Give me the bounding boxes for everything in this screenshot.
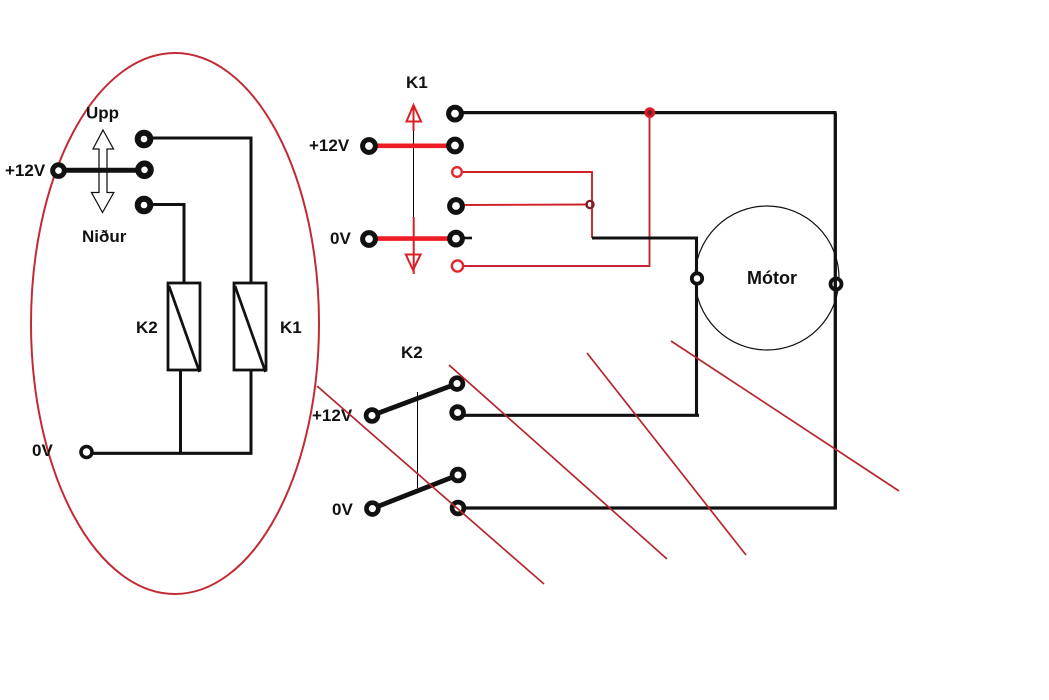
black wire motor left down to K2 throw: [463, 414, 699, 417]
terminal 0V right: [450, 232, 463, 245]
relay coil K2: [168, 283, 200, 372]
terminal +12V left: [363, 140, 376, 153]
red strike line B: [449, 365, 667, 559]
terminal K2 +12V left: [366, 410, 378, 422]
svg-text:Mótor: Mótor: [747, 268, 797, 288]
switch K2 lower arm: [372, 475, 458, 509]
switch K1 link line: [413, 131, 415, 217]
terminal Niður: [138, 199, 151, 212]
junction node on top rail (red): [646, 109, 654, 117]
switch K1 down arrowhead (red): [406, 255, 421, 271]
terminal Upp: [138, 133, 151, 146]
terminal K2 lower NC: [452, 502, 464, 514]
terminal K2 upper throw: [451, 378, 463, 390]
terminal K2 upper NC: [452, 407, 464, 419]
junction node (dark red circle): [586, 201, 593, 208]
red strike line D: [671, 341, 899, 491]
svg-text:K1: K1: [406, 73, 428, 92]
terminal +12V right: [449, 139, 462, 152]
terminal 0V feed (open circle): [81, 447, 92, 458]
motor terminal left: [692, 273, 702, 283]
svg-text:+12V: +12V: [312, 406, 353, 425]
terminal mid (black ring): [450, 200, 463, 213]
svg-text:K2: K2: [401, 343, 423, 362]
up/down white outline arrow: [92, 130, 114, 213]
wire 0V rail: [92, 452, 253, 455]
terminal top contact: [449, 107, 462, 120]
red wire black terminal to junction: [462, 204, 588, 207]
svg-text:Upp: Upp: [86, 104, 119, 123]
relay box ellipse (red): [31, 53, 319, 594]
wire upper contact to K1 coil: [150, 138, 251, 284]
closed contact +12V (red bar): [373, 144, 452, 149]
red strike line C: [587, 353, 746, 555]
svg-text:0V: 0V: [330, 229, 351, 248]
svg-text:K1: K1: [280, 318, 302, 337]
black stub right of 0V terminal: [460, 237, 472, 240]
terminal K2 lower throw: [452, 469, 464, 481]
terminal 0V left: [363, 233, 376, 246]
svg-text:+12V: +12V: [309, 136, 350, 155]
svg-text:Niður: Niður: [82, 227, 127, 246]
switch K1 up arrowhead (red): [407, 105, 422, 122]
relay coil K1: [234, 283, 266, 372]
wire K1 coil to 0V rail: [250, 370, 253, 454]
switch K2 upper arm: [372, 384, 457, 416]
red wire lower NC to top rail: [463, 114, 650, 266]
svg-text:0V: 0V: [332, 500, 353, 519]
wire +12V feed: [60, 168, 141, 173]
svg-text:K2: K2: [136, 318, 158, 337]
black wire junction to motor left: [592, 238, 697, 415]
closed contact 0V (red bar): [373, 236, 450, 241]
wire lower contact to K2 coil: [150, 205, 184, 285]
red strike line A: [317, 386, 544, 584]
motor circle: [695, 206, 839, 350]
svg-text:0V: 0V: [32, 441, 53, 460]
terminal +12V feed (small ring): [53, 165, 65, 177]
terminal lower NC (red open circle): [452, 260, 463, 271]
black wire right rail (top to bottom right corner): [460, 113, 835, 508]
terminal common: [138, 164, 151, 177]
svg-text:+12V: +12V: [5, 161, 46, 180]
switch K2 link line: [417, 392, 419, 488]
wire top contact to motor loop: [461, 111, 837, 114]
wire K2 coil to 0V rail: [179, 370, 182, 454]
terminal NC (red open circle): [452, 167, 462, 177]
terminal K2 0V left: [367, 503, 379, 515]
motor terminal right: [831, 279, 842, 290]
red wire NC contact to junction: [462, 172, 592, 238]
